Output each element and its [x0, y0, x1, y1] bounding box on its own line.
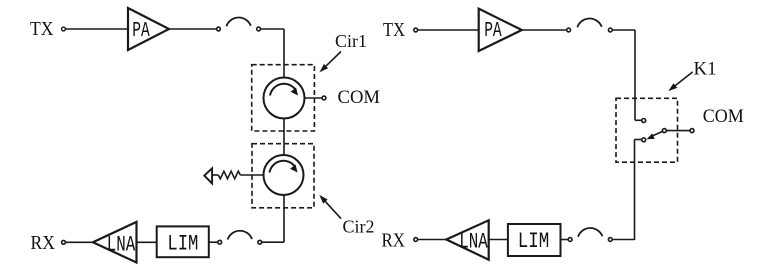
wire connector to corner (RX right)	[613, 239, 635, 241]
switch arm with arrow	[647, 132, 663, 140]
node: connector terminal right (TX right)	[608, 28, 612, 32]
node: COM terminal (left)	[322, 96, 326, 100]
node: TX terminal (right)	[414, 28, 418, 32]
node: COM terminal (right)	[690, 129, 694, 133]
circulator U2 rotation arrow	[270, 161, 298, 173]
node: connector terminal left	[217, 27, 221, 31]
amplifier LNA (right)	[446, 220, 488, 259]
amplifier PA (left)	[128, 8, 169, 50]
wire TX to PA (right)	[418, 29, 479, 31]
svg-text:COM: COM	[703, 107, 744, 127]
wire resistor to termination	[212, 174, 218, 176]
node: switch lower pole	[642, 138, 646, 142]
annotation arrow to Cir2 box	[319, 195, 341, 219]
svg-text:RX: RX	[31, 232, 56, 254]
switch box K1 (dashed)	[616, 98, 678, 162]
resistor (termination load)	[218, 171, 240, 179]
wire stub from lower pole	[635, 139, 642, 141]
svg-text:LNA: LNA	[459, 230, 488, 255]
wire lower pole down to RX line	[634, 140, 636, 241]
node: switch common pivot	[662, 129, 666, 133]
node: connector terminal right (RX row)	[258, 240, 262, 244]
circulator U1 circle	[264, 78, 305, 119]
wire connector to corner	[261, 28, 284, 30]
node: connector terminal right	[257, 27, 261, 31]
node: connector terminal right (RX right)	[608, 238, 612, 242]
circulator box Cir2 (dashed)	[252, 144, 314, 208]
amplifier PA (right)	[479, 9, 522, 51]
wire Cir2 to load resistor	[240, 174, 263, 176]
wire PA to connector (right)	[522, 29, 567, 31]
svg-text:PA: PA	[484, 20, 502, 43]
connector arc (TX left)	[226, 18, 250, 27]
termination arrow symbol	[204, 168, 212, 183]
svg-text:Cir2: Cir2	[343, 216, 375, 236]
wire Cir1 to COM terminal	[305, 97, 322, 99]
node: connector terminal left (TX right)	[567, 28, 571, 32]
svg-text:TX: TX	[30, 18, 54, 40]
connector arc (RX right)	[578, 228, 602, 237]
node: connector terminal left (RX row)	[218, 240, 222, 244]
node: TX terminal (left)	[62, 27, 66, 31]
wire LNA to LIM (right)	[489, 239, 508, 241]
circulator box Cir1 (dashed)	[252, 65, 315, 131]
annotation arrow to Cir1 box	[320, 52, 342, 73]
circulator U1 rotation arrow	[270, 84, 298, 96]
wire LIM to connector (RX row)	[209, 241, 218, 243]
wire pivot to COM terminal	[667, 130, 690, 132]
svg-text:LIM: LIM	[167, 232, 198, 257]
wire Cir1 to Cir2	[283, 119, 285, 156]
node: RX terminal (left)	[62, 240, 66, 244]
node: RX terminal (right)	[414, 238, 418, 242]
limiter LIM box (right)	[508, 224, 561, 256]
circulator U2 circle	[264, 155, 304, 195]
wire RX to LNA (right)	[418, 239, 446, 241]
wire connector to corner (TX right)	[613, 29, 636, 31]
wire down into K1	[634, 30, 636, 120]
wire LNA to LIM	[137, 241, 158, 243]
limiter LIM box (left)	[157, 226, 209, 257]
wire down into Cir1	[283, 29, 285, 78]
wire connector to corner (RX row)	[262, 241, 284, 243]
node: switch upper pole	[642, 119, 646, 123]
svg-text:Cir1: Cir1	[335, 31, 367, 51]
wire stub to upper switch pole	[635, 119, 641, 121]
wire TX to PA	[66, 28, 128, 30]
node: connector terminal left (RX right)	[568, 238, 572, 242]
svg-text:PA: PA	[132, 20, 150, 43]
wire LIM to connector (RX right)	[561, 239, 568, 241]
svg-text:K1: K1	[694, 59, 717, 79]
wire RX to LNA	[66, 241, 93, 243]
connector arc (TX right)	[577, 19, 601, 28]
svg-text:COM: COM	[338, 87, 381, 108]
svg-text:LIM: LIM	[518, 229, 550, 254]
svg-text:LNA: LNA	[107, 233, 136, 258]
annotation arrow to K1 box	[668, 72, 692, 91]
amplifier LNA (left)	[93, 222, 137, 263]
svg-text:RX: RX	[382, 230, 406, 252]
connector arc (RX left)	[228, 231, 252, 240]
wire Cir2 down to RX line	[283, 195, 285, 242]
wire PA to connector	[169, 28, 216, 30]
svg-text:TX: TX	[383, 19, 405, 41]
